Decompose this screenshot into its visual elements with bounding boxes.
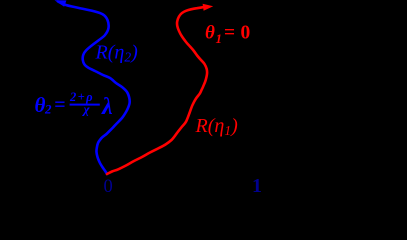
blue arrowhead (55, 0, 67, 7)
svg-text:θ: θ (35, 93, 46, 117)
svg-text:χ: χ (82, 102, 91, 117)
svg-text:1: 1 (216, 31, 223, 46)
svg-text:θ: θ (205, 23, 215, 44)
label theta2 equation: theta_2 (35, 90, 114, 120)
blue curve R(eta2) (58, 2, 130, 175)
label theta1 = 0 red (205, 23, 250, 47)
svg-text:λ: λ (101, 94, 113, 120)
svg-text:2: 2 (44, 102, 52, 117)
svg-text:0: 0 (104, 177, 113, 196)
svg-text:1: 1 (252, 175, 262, 196)
fraction bar (70, 104, 100, 106)
svg-text:0: 0 (241, 23, 251, 44)
svg-text:2+ρ: 2+ρ (69, 90, 94, 104)
svg-text:=: = (54, 94, 65, 116)
red arrowhead (203, 4, 214, 11)
red curve R(eta1) (107, 7, 207, 174)
svg-text:R(η1): R(η1) (195, 115, 239, 138)
svg-text:=: = (224, 23, 235, 44)
svg-text:R(η2): R(η2) (95, 42, 139, 65)
